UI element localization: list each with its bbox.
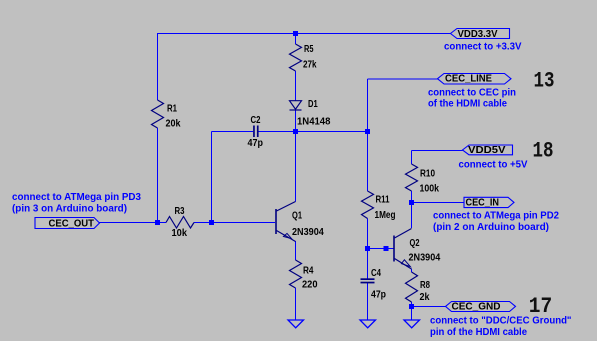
svg-text:C4: C4 bbox=[371, 268, 381, 279]
svg-text:18: 18 bbox=[533, 139, 554, 164]
svg-text:D1: D1 bbox=[308, 99, 318, 110]
svg-text:(pin 3 on Arduino board): (pin 3 on Arduino board) bbox=[12, 203, 127, 214]
wire R11 to base node bbox=[367, 219, 369, 249]
resistor R10 bbox=[406, 164, 418, 191]
svg-text:of the HDMI cable: of the HDMI cable bbox=[428, 99, 507, 110]
ground below R4 bbox=[288, 320, 304, 328]
svg-text:2k: 2k bbox=[420, 292, 430, 303]
wire CEC_LINE column down bbox=[367, 79, 369, 191]
svg-text:CEC_IN: CEC_IN bbox=[466, 198, 500, 209]
svg-text:2N3904: 2N3904 bbox=[292, 227, 324, 238]
junction CEC_LINE column at node row bbox=[365, 129, 370, 134]
ground below R8 bbox=[404, 320, 420, 328]
svg-text:220: 220 bbox=[302, 280, 318, 291]
junction R10/CEC_IN/Q2 collector bbox=[409, 200, 414, 205]
svg-text:13: 13 bbox=[534, 69, 555, 94]
junction at top of R5 bbox=[293, 31, 298, 36]
transistor Q1 bbox=[275, 209, 277, 234]
svg-text:47p: 47p bbox=[371, 290, 386, 301]
svg-text:10k: 10k bbox=[172, 228, 188, 239]
svg-text:R4: R4 bbox=[303, 266, 314, 277]
net flag CEC_OUT bbox=[35, 218, 100, 229]
wire VDD5V horizontal bbox=[412, 150, 463, 152]
wire VDD5V corner to R10 bbox=[411, 151, 413, 165]
wire D1 to node row bbox=[295, 110, 297, 132]
svg-text:pin of the HDMI cable: pin of the HDMI cable bbox=[430, 327, 527, 338]
wire R8 to CEC_GND node bbox=[411, 302, 413, 307]
wire Q2 emitter to R8 bbox=[411, 269, 413, 272]
wire CEC_LINE horizontal bbox=[368, 78, 438, 80]
wire left vertical R1 branch lower bbox=[157, 128, 159, 222]
svg-text:connect to +3.3V: connect to +3.3V bbox=[444, 42, 522, 53]
svg-text:VDD5V: VDD5V bbox=[468, 145, 506, 156]
svg-text:R10: R10 bbox=[420, 169, 435, 180]
wire C2 right plate to node bbox=[258, 131, 295, 133]
junction on Q2 base wire bbox=[384, 246, 389, 251]
svg-text:C2: C2 bbox=[251, 115, 261, 126]
resistor R5 bbox=[290, 44, 302, 71]
wire base node to Q2 base bbox=[368, 248, 394, 250]
wire node down to ground bbox=[411, 307, 413, 321]
wire CEC_OUT to R3 bbox=[99, 222, 166, 224]
junction R11/C4/Q2 base bbox=[365, 246, 370, 251]
wire R3 to Q1 base bbox=[194, 222, 275, 224]
junction D1/C2/collector node bbox=[293, 129, 298, 134]
svg-text:CEC_OUT: CEC_OUT bbox=[49, 219, 95, 230]
wire R10 to CEC_IN node bbox=[411, 191, 413, 203]
transistor Q2 bbox=[393, 236, 395, 262]
wire node row to CEC_LINE column bbox=[296, 131, 368, 133]
svg-text:Q1: Q1 bbox=[292, 211, 302, 222]
svg-text:connect to ATMega pin PD2: connect to ATMega pin PD2 bbox=[433, 211, 559, 222]
svg-text:R8: R8 bbox=[420, 280, 430, 291]
wire top horizontal rail bbox=[157, 33, 451, 35]
svg-text:(pin 2 on Arduino board): (pin 2 on Arduino board) bbox=[433, 222, 549, 233]
wire node to Q1 collector bbox=[295, 132, 297, 202]
svg-text:VDD3.3V: VDD3.3V bbox=[458, 29, 498, 40]
svg-text:CEC_GND: CEC_GND bbox=[452, 302, 501, 313]
ground below C4 bbox=[360, 320, 376, 328]
capacitor C2 bbox=[253, 126, 259, 138]
svg-text:R3: R3 bbox=[175, 206, 185, 217]
resistor R11 bbox=[362, 191, 374, 219]
svg-text:Q2: Q2 bbox=[410, 238, 420, 249]
svg-text:2N3904: 2N3904 bbox=[409, 253, 441, 264]
wire node to CEC_GND flag bbox=[412, 306, 446, 308]
net flag CEC_GND bbox=[446, 302, 516, 312]
net flag CEC_IN bbox=[464, 197, 514, 207]
wire R5 to D1 bbox=[295, 71, 297, 101]
wire node to CEC_IN flag bbox=[412, 202, 465, 204]
svg-text:connect to CEC pin: connect to CEC pin bbox=[428, 87, 516, 98]
resistor R8 bbox=[406, 272, 418, 302]
wire C4 to ground bbox=[367, 283, 369, 321]
svg-text:47p: 47p bbox=[248, 138, 263, 149]
wire Q1 emitter to R4 bbox=[295, 241, 297, 260]
resistor R3 bbox=[166, 217, 194, 229]
wire R4 to ground bbox=[295, 288, 297, 320]
wire node down to Q2 collector bbox=[411, 203, 413, 229]
svg-text:1N4148: 1N4148 bbox=[297, 117, 331, 128]
junction R8/CEC_GND/ground bbox=[409, 304, 414, 309]
svg-text:R1: R1 bbox=[167, 104, 177, 115]
svg-text:100k: 100k bbox=[420, 184, 440, 195]
net flag VDD3.3V bbox=[451, 29, 510, 39]
svg-text:20k: 20k bbox=[166, 119, 181, 130]
svg-text:17: 17 bbox=[529, 294, 552, 319]
svg-text:1Meg: 1Meg bbox=[375, 210, 396, 221]
net flag CEC_LINE bbox=[438, 74, 512, 85]
svg-text:connect to +5V: connect to +5V bbox=[459, 160, 528, 171]
resistor R1 bbox=[152, 100, 164, 128]
svg-text:connect to ATMega pin PD3: connect to ATMega pin PD3 bbox=[12, 192, 141, 203]
svg-text:R11: R11 bbox=[376, 195, 390, 206]
net flag VDD5V bbox=[463, 145, 513, 155]
svg-text:CEC_LINE: CEC_LINE bbox=[445, 73, 492, 84]
wire base node to C4 bbox=[367, 249, 369, 279]
junction R1/CEC_OUT/R3 bbox=[155, 220, 160, 225]
svg-text:27k: 27k bbox=[303, 60, 317, 71]
wire to C2 left plate bbox=[212, 131, 254, 133]
wire vertical C2 branch bbox=[211, 132, 213, 223]
junction R3/C2 branch bbox=[209, 220, 214, 225]
resistor R4 bbox=[290, 260, 302, 288]
wire R5 top stub bbox=[295, 34, 297, 45]
capacitor C4 bbox=[361, 278, 375, 283]
diode D1 bbox=[290, 101, 302, 110]
wire left vertical R1 branch upper bbox=[157, 34, 159, 101]
svg-text:R5: R5 bbox=[304, 44, 314, 55]
